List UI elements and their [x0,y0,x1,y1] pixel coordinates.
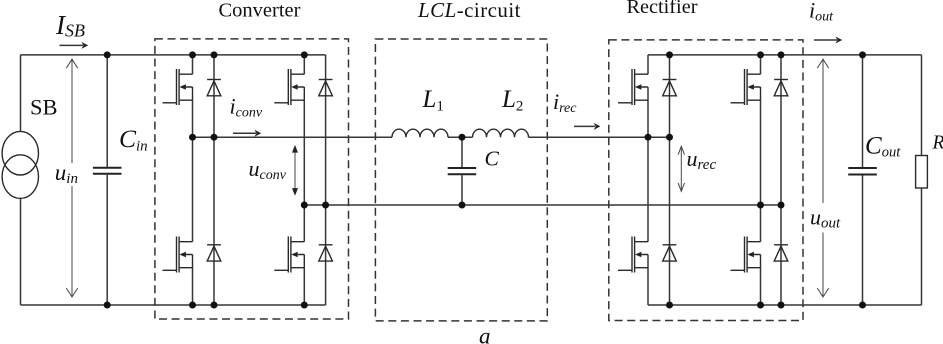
capacitor Cout plates [848,168,877,175]
transistor Q2 [274,69,304,105]
node low line rect leg2 mosfet [757,202,764,209]
diode D3 [207,245,221,261]
diode D2 [319,80,333,96]
svg-text:Cin: Cin [119,124,148,155]
wire left source branch [20,55,22,305]
node bottom rail Cout [859,302,866,309]
diode D6 [774,80,788,96]
node top rail rect leg2 diode [778,51,785,58]
transistor Q5 [618,69,648,105]
inductor L2 [473,129,529,137]
source SB [2,131,38,198]
diode D7 [663,245,677,261]
arrow i_conv [233,130,261,137]
node bottom rail conv leg1 diode [211,302,218,309]
wire rectifier right leg mosfet [760,55,762,305]
node mid line LCL C top [459,134,466,141]
wire top rail right section [648,54,922,56]
transistor Q7 [618,237,648,273]
diode D8 [774,245,788,261]
resistor R [916,156,928,189]
wire converter right leg diode [325,55,327,305]
transistor Q1 [163,69,193,105]
node top rail conv leg1 mosfet [189,51,196,58]
transistor Q4 [274,237,304,273]
node bottom rail rect leg2 diode [778,302,785,309]
wire top rail left section [21,54,326,56]
node bottom rail rect leg2 mosfet [757,302,764,309]
node low line LCL C bottom [459,202,466,209]
transistor Q8 [731,237,761,273]
diode D5 [663,80,677,96]
svg-text:urec: urec [687,146,717,173]
node mid line conv leg1 mosfet [189,134,196,141]
node top rail rect leg1 diode [666,51,673,58]
wire upper middle line [193,136,670,138]
capacitor Cin plates [93,168,122,174]
node bottom rail conv leg1 mosfet [189,302,196,309]
wire converter left leg diode [213,55,215,305]
capacitor Cout wires [862,55,864,305]
svg-text:a: a [479,324,491,344]
node low line rect leg2 diode [778,202,785,209]
svg-text:LCL-circuit: LCL-circuit [417,0,521,22]
node low line conv leg2 mosfet [301,202,308,209]
svg-text:C: C [485,147,500,171]
capacitor C wires [461,137,463,205]
arrow I_SB [60,42,89,49]
diode D4 [319,245,333,261]
svg-text:L1: L1 [422,86,444,115]
node top rail rect leg2 mosfet [757,51,764,58]
capacitor Cin wires [106,55,108,305]
arrow i_rec [574,123,600,130]
wire resistor branch [921,55,923,305]
svg-text:ISB: ISB [55,10,85,41]
wire bottom rail right section [648,304,922,306]
node mid line rect leg1 diode [666,134,673,141]
arrow u_in [66,59,77,297]
capacitor C plates [448,168,477,174]
rectifier dashed box [609,40,803,321]
svg-text:uout: uout [810,205,841,232]
LCL dashed box [375,39,547,321]
wire rectifier left leg diode [669,55,671,305]
svg-text:uin: uin [55,160,78,187]
node mid line rect leg1 mosfet [645,134,652,141]
node mid line conv leg1 diode [211,134,218,141]
node top rail conv leg1 diode [211,51,218,58]
arrow u_rec [678,146,684,191]
svg-text:Rectifier: Rectifier [627,0,698,18]
svg-text:R: R [932,133,943,154]
node low line conv leg2 diode [322,202,329,209]
wire rectifier right leg diode [780,55,782,305]
arrow u_conv [292,145,298,196]
arrow u_out [817,59,828,297]
wire rectifier left leg mosfet [647,55,649,305]
node top rail conv leg2 mosfet [301,51,308,58]
svg-text:L2: L2 [501,86,523,115]
svg-text:uconv: uconv [249,156,287,183]
wire bottom rail left section [21,304,326,306]
transistor Q6 [731,69,761,105]
wire converter right leg mosfet [303,55,305,305]
svg-text:Converter: Converter [219,0,301,22]
svg-text:iout: iout [809,0,834,25]
wire lower middle line [304,204,781,206]
node top rail Cin [104,51,111,58]
node bottom rail Cin [104,302,111,309]
wire converter left leg mosfet [192,55,194,305]
transistor Q3 [163,237,193,273]
svg-text:irec: irec [553,89,577,116]
node bottom rail rect leg1 diode [666,302,673,309]
inductor L1 [392,129,448,137]
svg-text:SB: SB [30,95,58,120]
diode D1 [207,80,221,96]
svg-text:Cout: Cout [865,133,901,161]
arrow i_out [814,37,842,44]
node bottom rail conv leg2 mosfet [301,302,308,309]
node top rail Cout [859,51,866,58]
svg-text:iconv: iconv [230,94,263,121]
converter dashed box [155,39,349,319]
